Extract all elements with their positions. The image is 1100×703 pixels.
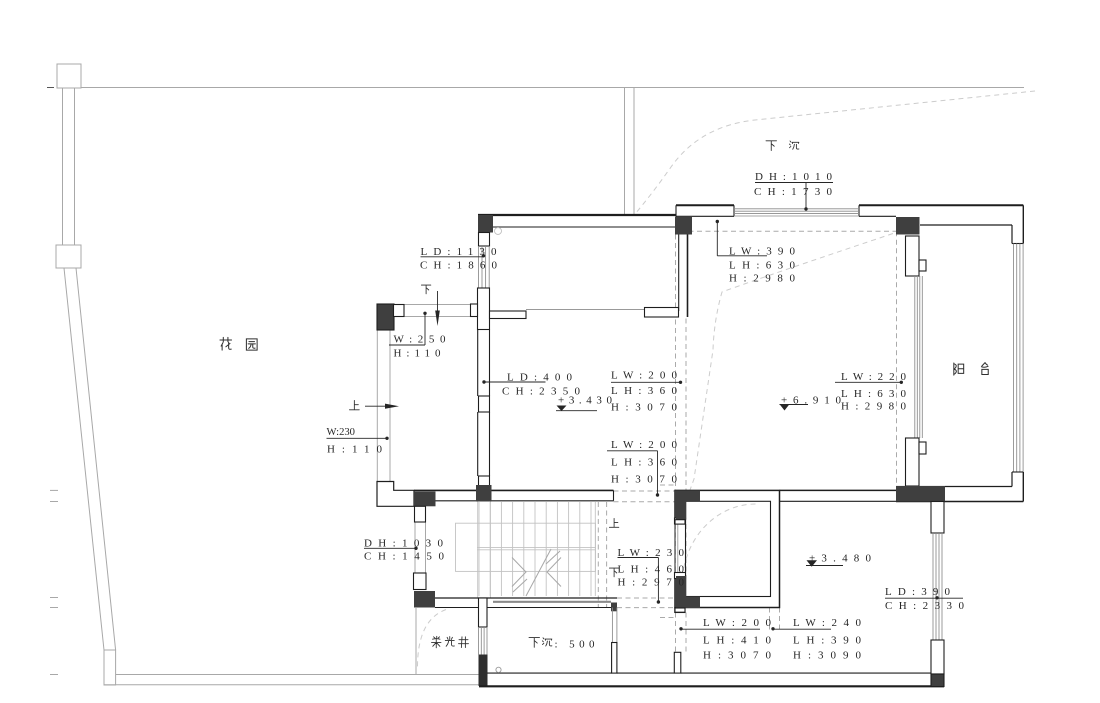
svg-text:W:230: W:230 [327,427,356,438]
